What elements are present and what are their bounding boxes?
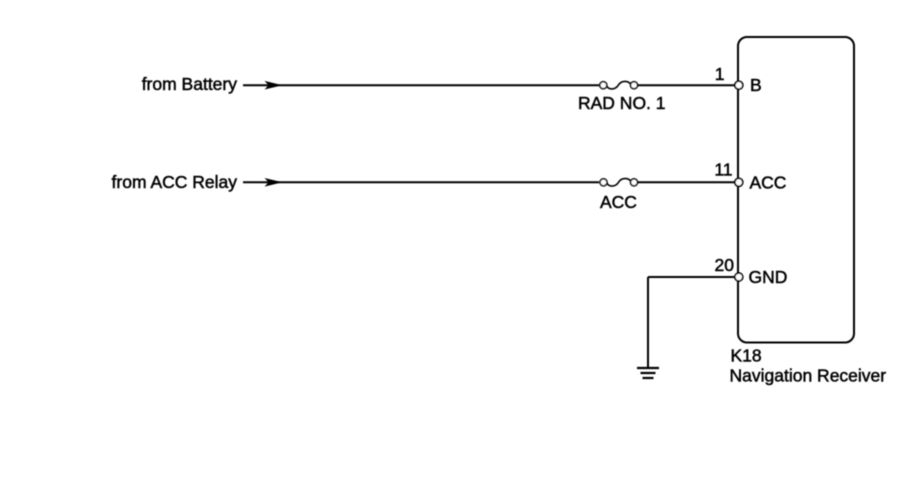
arrow: current direction on ACC wire (265, 178, 283, 187)
svg-text:B: B (750, 75, 762, 95)
svg-text:ACC: ACC (750, 172, 787, 192)
arrow: current direction on battery wire (265, 81, 283, 90)
component K18 Navigation Receiver (box) (738, 37, 854, 343)
svg-text:1: 1 (715, 64, 725, 84)
wire: ACC relay feed to fuse ACC (243, 181, 599, 183)
svg-text:Navigation Receiver: Navigation Receiver (730, 366, 887, 386)
wire: battery feed to fuse RAD NO. 1 (243, 84, 599, 86)
wire: fuse ACC to pin 11 (638, 181, 735, 183)
pin 1 (B) (735, 81, 743, 89)
svg-text:RAD NO. 1: RAD NO. 1 (578, 93, 666, 113)
wire: vertical drop to ground (647, 277, 649, 367)
svg-text:K18: K18 (731, 346, 762, 366)
wire: fuse to pin 1 (638, 84, 735, 86)
svg-text:GND: GND (749, 267, 788, 287)
svg-text:ACC: ACC (600, 192, 637, 212)
wire: ground run to pin 20 (648, 276, 735, 278)
svg-text:from Battery: from Battery (142, 74, 238, 94)
svg-text:11: 11 (714, 160, 732, 180)
ground (637, 368, 659, 378)
pin 20 (GND) (735, 273, 743, 281)
svg-text:20: 20 (715, 255, 735, 275)
svg-text:from ACC Relay: from ACC Relay (112, 172, 238, 192)
pin 11 (ACC) (735, 178, 743, 186)
fuse ACC (600, 179, 638, 186)
fuse RAD NO. 1 (600, 81, 638, 88)
